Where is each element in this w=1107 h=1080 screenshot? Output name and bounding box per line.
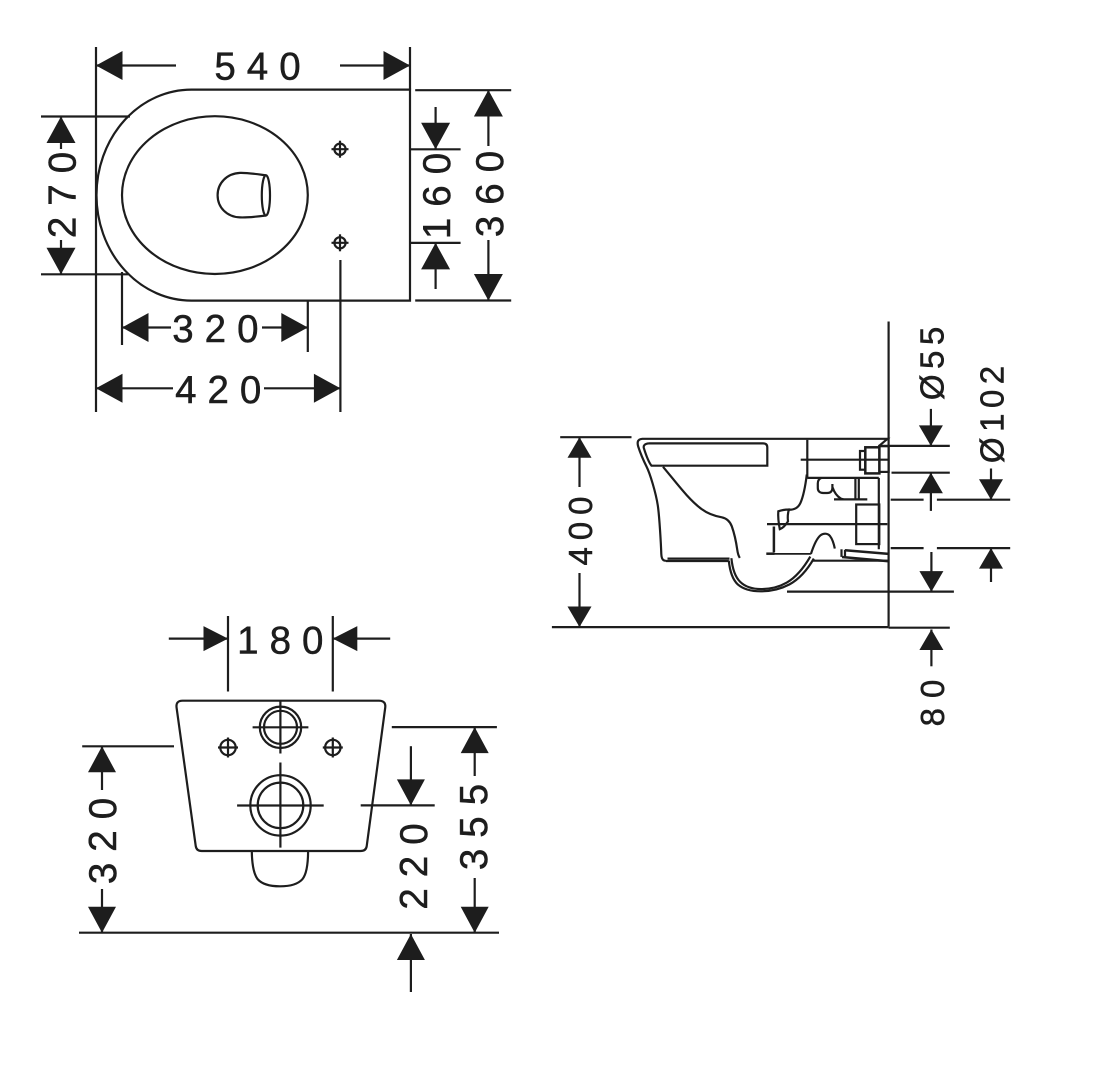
svg-text:320: 320: [172, 308, 269, 351]
svg-text:80: 80: [914, 670, 951, 727]
svg-text:320: 320: [82, 787, 125, 884]
svg-text:400: 400: [562, 489, 599, 565]
svg-text:220: 220: [393, 812, 436, 909]
svg-text:360: 360: [469, 140, 512, 237]
svg-text:270: 270: [42, 141, 85, 238]
svg-text:180: 180: [237, 620, 334, 663]
svg-text:355: 355: [453, 773, 496, 870]
svg-text:540: 540: [214, 46, 311, 89]
svg-text:420: 420: [175, 369, 272, 412]
svg-text:Ø102: Ø102: [973, 360, 1010, 463]
svg-text:160: 160: [416, 142, 459, 239]
svg-text:Ø55: Ø55: [914, 321, 951, 400]
